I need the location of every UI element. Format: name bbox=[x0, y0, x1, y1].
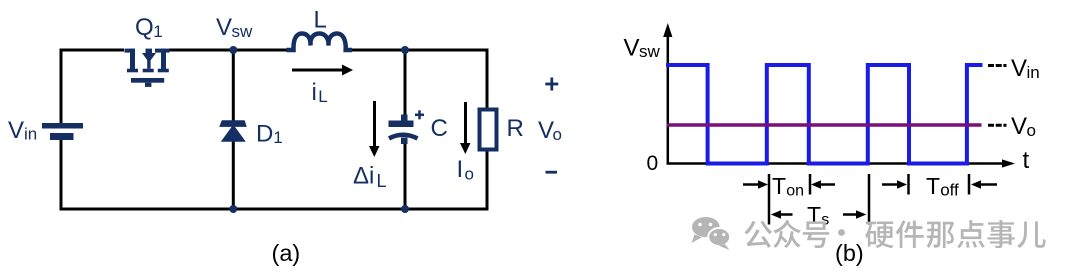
svg-text:Q: Q bbox=[135, 14, 154, 41]
svg-text:1: 1 bbox=[153, 22, 162, 41]
svg-text:on: on bbox=[786, 183, 804, 200]
svg-text:(b): (b) bbox=[835, 240, 864, 266]
svg-text:T: T bbox=[926, 173, 940, 199]
svg-text:o: o bbox=[1027, 121, 1036, 140]
svg-text:in: in bbox=[24, 125, 37, 144]
svg-text:I: I bbox=[457, 156, 464, 183]
svg-text:off: off bbox=[940, 181, 959, 200]
svg-text:T: T bbox=[772, 173, 786, 199]
svg-text:C: C bbox=[431, 115, 448, 142]
svg-text:L: L bbox=[314, 7, 327, 34]
svg-text:V: V bbox=[1011, 55, 1027, 82]
svg-text:V: V bbox=[8, 117, 24, 144]
svg-text:in: in bbox=[1027, 63, 1040, 82]
svg-text:R: R bbox=[507, 115, 524, 142]
svg-text:Δi: Δi bbox=[353, 163, 374, 190]
svg-text:sw: sw bbox=[639, 42, 661, 61]
svg-text:sw: sw bbox=[232, 22, 254, 41]
svg-text:0: 0 bbox=[647, 152, 659, 175]
svg-text:(a): (a) bbox=[272, 240, 301, 266]
svg-text:o: o bbox=[553, 125, 562, 144]
svg-text:V: V bbox=[216, 14, 232, 41]
svg-text:o: o bbox=[465, 165, 474, 184]
svg-text:L: L bbox=[377, 171, 387, 191]
svg-text:V: V bbox=[1011, 113, 1027, 140]
svg-text:D: D bbox=[256, 120, 273, 147]
svg-text:L: L bbox=[318, 87, 327, 106]
svg-text:t: t bbox=[1023, 147, 1030, 174]
svg-text:1: 1 bbox=[273, 128, 282, 147]
svg-text:V: V bbox=[624, 35, 640, 62]
svg-text:i: i bbox=[312, 79, 317, 106]
